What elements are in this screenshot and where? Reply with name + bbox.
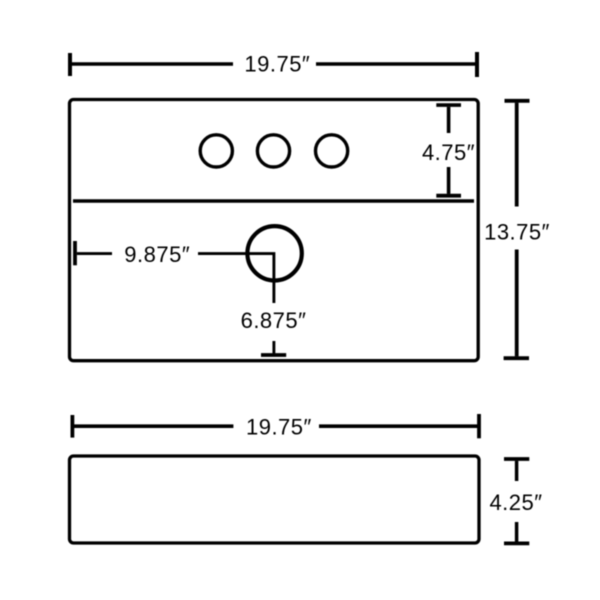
svg-text:13.75″: 13.75″ bbox=[484, 219, 550, 244]
svg-text:4.75″: 4.75″ bbox=[422, 140, 475, 165]
svg-text:6.875″: 6.875″ bbox=[241, 308, 307, 333]
svg-text:19.75″: 19.75″ bbox=[244, 52, 310, 77]
svg-text:19.75″: 19.75″ bbox=[246, 414, 312, 439]
svg-text:9.875″: 9.875″ bbox=[124, 242, 190, 267]
svg-text:4.25″: 4.25″ bbox=[489, 490, 542, 515]
